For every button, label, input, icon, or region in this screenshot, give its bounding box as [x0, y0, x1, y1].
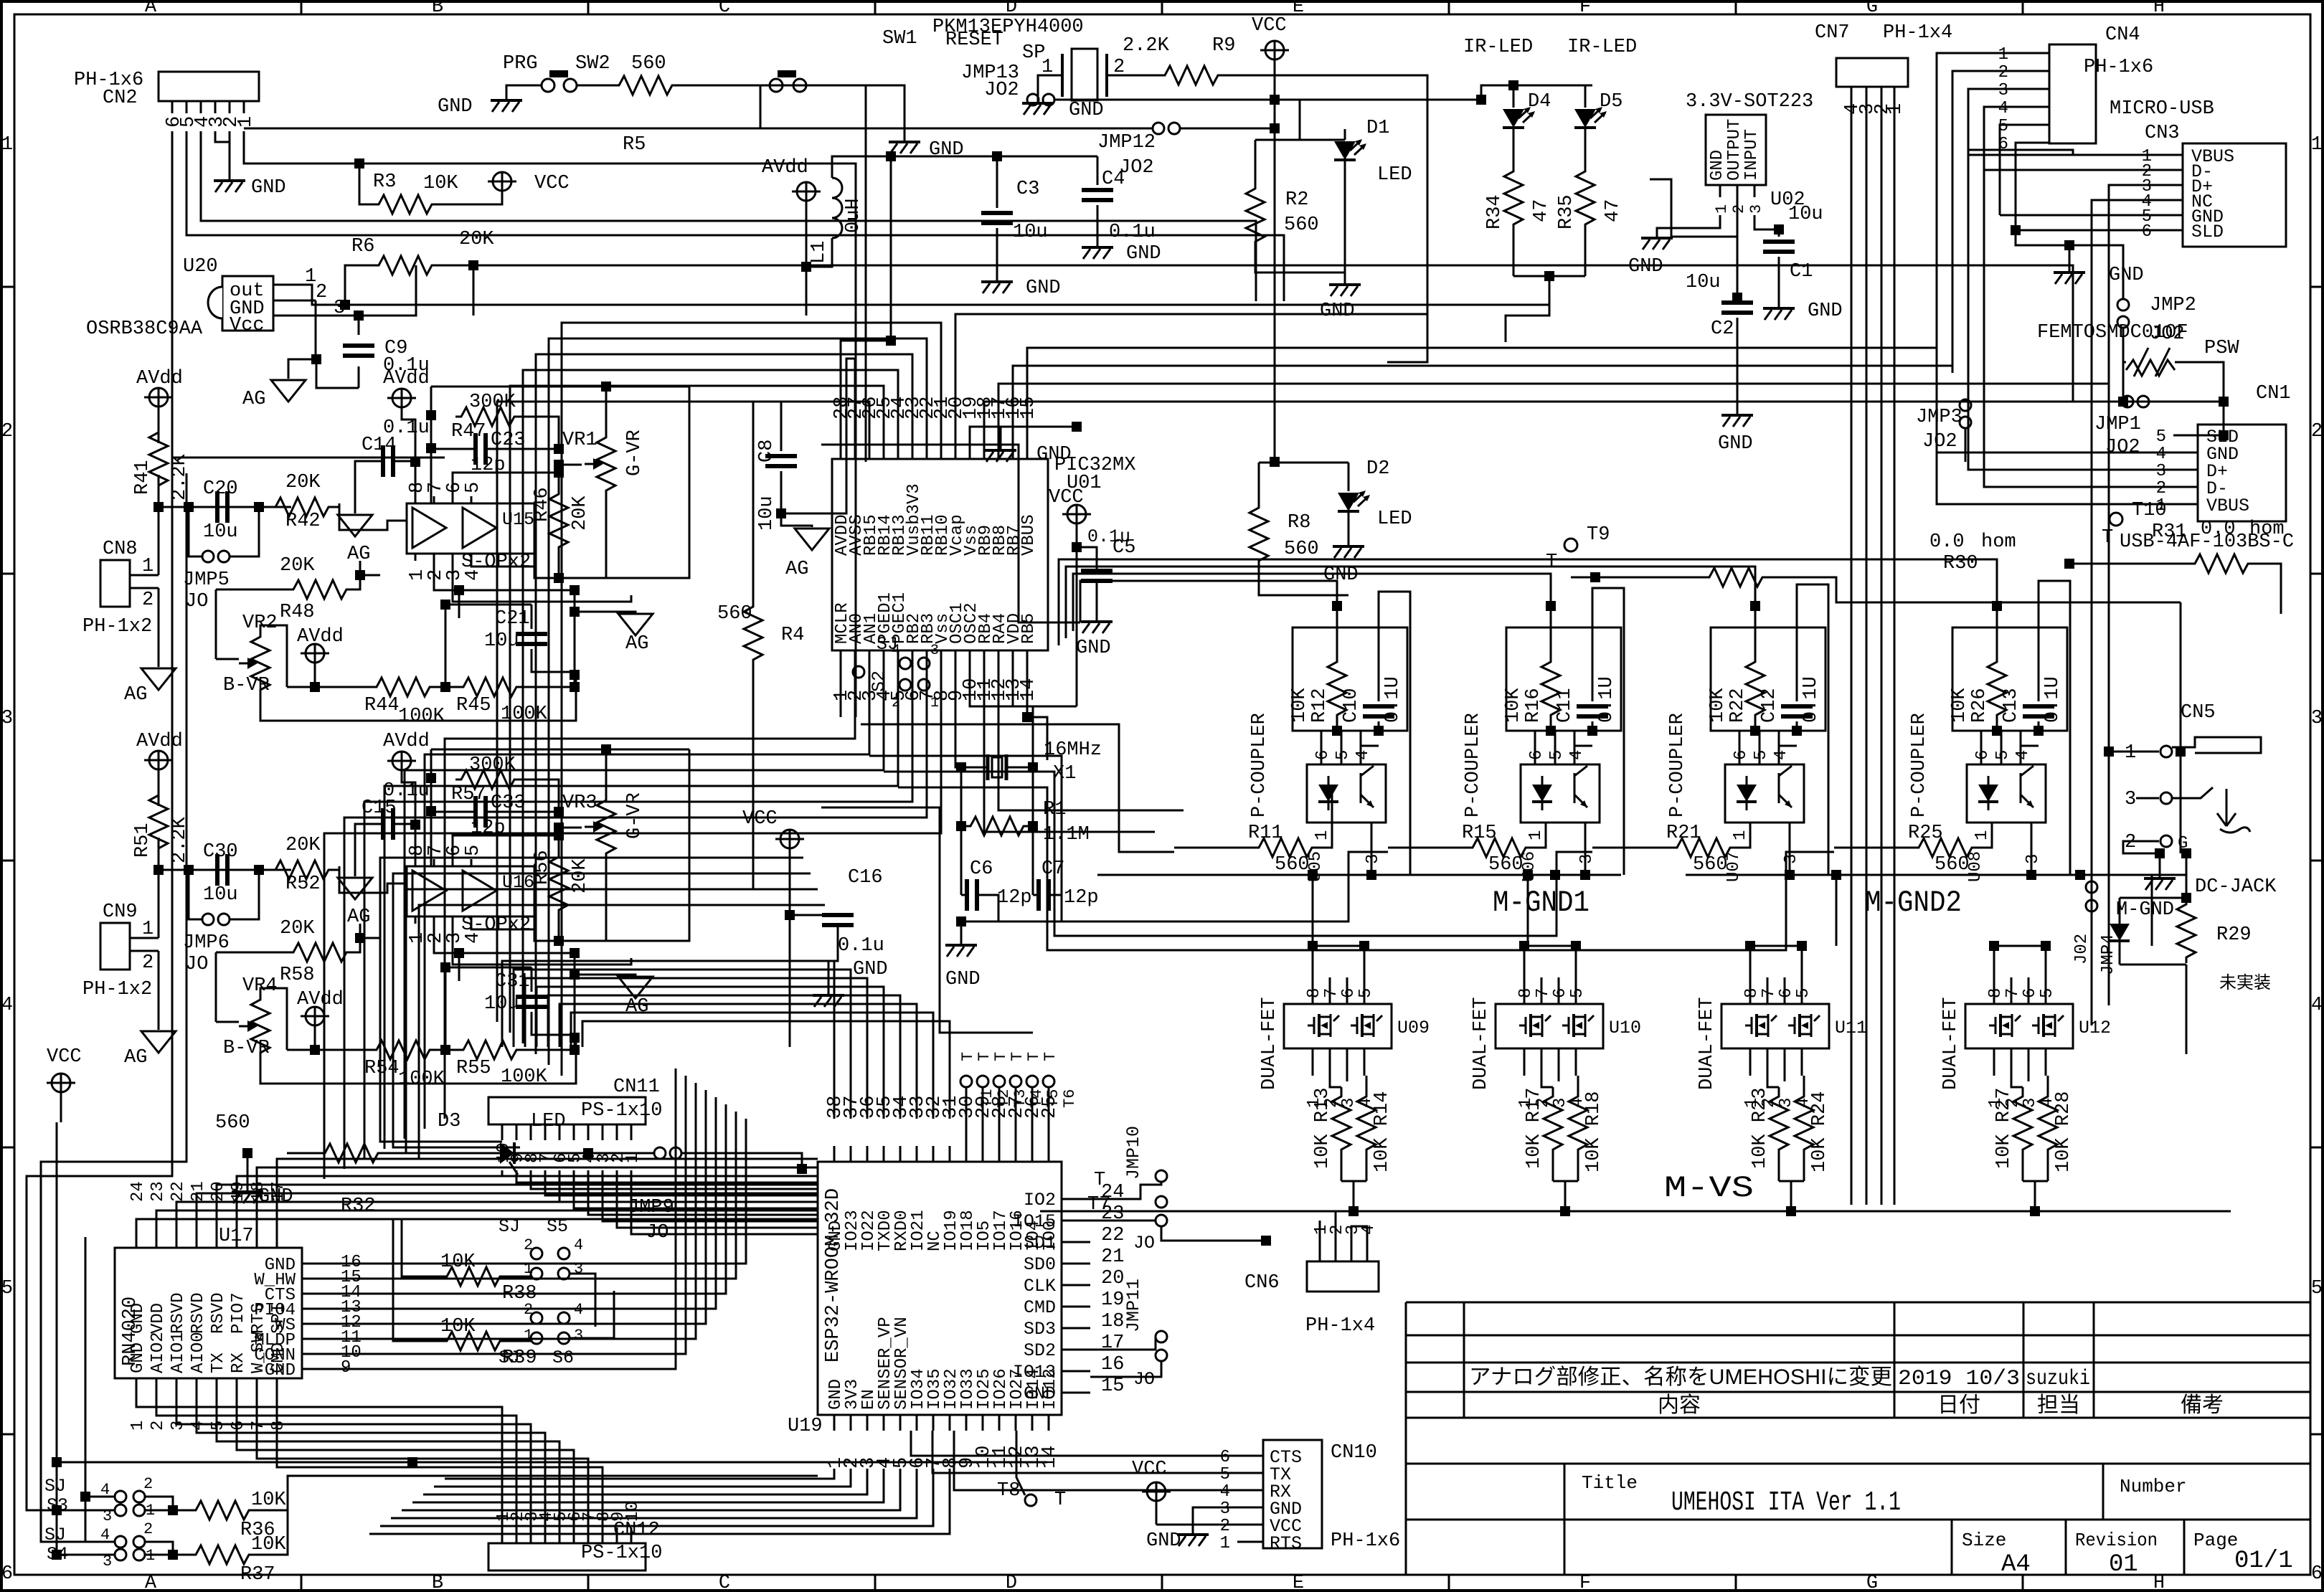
svg-text:560: 560 — [631, 53, 666, 75]
svg-text:2: 2 — [316, 282, 327, 303]
pin 14 U19 — [1048, 1415, 1050, 1431]
svg-text:20K: 20K — [280, 918, 315, 939]
svg-text:3: 3 — [1220, 1499, 1230, 1519]
svg-text:R41: R41 — [132, 460, 153, 495]
svg-text:10K R14: 10K R14 — [1371, 1091, 1393, 1172]
svg-text:3: 3 — [2125, 789, 2136, 810]
pin 5 CN3 GND — [2159, 214, 2183, 217]
svg-text:T: T — [1025, 1052, 1043, 1061]
svg-text:15: 15 — [1018, 397, 1039, 420]
svg-text:C8: C8 — [756, 440, 778, 463]
svg-text:R34: R34 — [1484, 194, 1506, 229]
svg-text:2: 2 — [142, 952, 153, 974]
svg-text:DC-JACK: DC-JACK — [2195, 876, 2277, 898]
pin 12 U01 — [998, 650, 1000, 663]
pin 12 U19 — [1015, 1415, 1017, 1431]
wire pin4 to cap — [2021, 745, 2039, 747]
svg-text:GND: GND — [1808, 300, 1843, 322]
svg-text:A4: A4 — [2001, 1551, 2031, 1578]
svg-text:U10: U10 — [1609, 1018, 1641, 1038]
svg-text:RTS: RTS — [1270, 1533, 1302, 1554]
jumper JMP4 J02 — [2091, 881, 2093, 1025]
pin 14 U01 — [1026, 650, 1029, 663]
svg-text:INPUT: INPUT — [1742, 129, 1762, 181]
svg-text:R16: R16 — [1523, 688, 1544, 723]
svg-text:12p: 12p — [1064, 887, 1099, 909]
svg-text:20K: 20K — [459, 229, 494, 250]
test point T9 — [1564, 539, 1577, 551]
wire M-GND2 rail — [1686, 874, 2186, 876]
ground X1 — [960, 921, 963, 944]
svg-text:5: 5 — [1220, 1465, 1230, 1484]
ground CN3 — [2069, 245, 2071, 271]
svg-text:4: 4 — [463, 932, 484, 944]
power AVdd R51 — [149, 751, 168, 769]
svg-text:PH-1x2: PH-1x2 — [82, 979, 152, 1000]
svg-text:22: 22 — [169, 1181, 188, 1202]
svg-text:SD3: SD3 — [1024, 1319, 1056, 1340]
wire fet bottom stubs — [1541, 1076, 1553, 1087]
pin 4 U01 — [883, 650, 885, 663]
svg-text:A: A — [145, 1573, 157, 1592]
pin 18 U19 SD3 — [1062, 1327, 1090, 1330]
svg-text:R3: R3 — [373, 171, 396, 193]
pin 6 CN10 CTS — [1237, 1455, 1263, 1457]
svg-text:C5: C5 — [1113, 537, 1135, 559]
svg-text:6: 6 — [1220, 1448, 1230, 1467]
pin 1 U19 — [833, 1415, 836, 1431]
svg-text:VCC: VCC — [534, 173, 570, 194]
wire D1 R2 top — [1255, 139, 1345, 141]
pin 4 CN3 NC — [2159, 199, 2183, 202]
wire fet top rail — [1524, 946, 1576, 977]
svg-text:10K R18: 10K R18 — [1583, 1091, 1605, 1172]
svg-text:2: 2 — [1998, 63, 2008, 82]
wire fet top rail — [1750, 946, 1802, 977]
svg-text:5: 5 — [1, 1278, 13, 1299]
svg-text:R9: R9 — [1212, 35, 1235, 57]
svg-text:1: 1 — [2311, 134, 2323, 156]
svg-text:4: 4 — [1, 995, 13, 1016]
svg-text:CN11: CN11 — [613, 1076, 660, 1098]
svg-text:B: B — [432, 0, 443, 18]
wire fet bottom stubs — [1767, 1076, 1779, 1087]
svg-text:4: 4 — [1354, 750, 1373, 760]
pin 2 U01 — [854, 650, 856, 663]
svg-text:T7: T7 — [1087, 1194, 1110, 1216]
svg-text:GND: GND — [128, 1342, 148, 1373]
pin 30 U19 — [965, 1146, 968, 1162]
svg-text:JO: JO — [646, 1222, 669, 1243]
svg-text:20K: 20K — [570, 496, 591, 531]
pin 4 U19 — [883, 1415, 885, 1431]
svg-text:6: 6 — [1732, 750, 1751, 760]
svg-text:DUAL-FET: DUAL-FET — [1259, 997, 1280, 1090]
pin 7 U01 — [926, 650, 928, 663]
wire CN4 pin 5 — [2023, 124, 2049, 126]
svg-text:10K: 10K — [1289, 688, 1310, 723]
wire CN2 pin3 pin2 to GND — [215, 131, 230, 179]
svg-text:RSVD: RSVD — [169, 1292, 188, 1334]
svg-text:D: D — [1006, 0, 1017, 18]
svg-text:D5: D5 — [1600, 91, 1622, 113]
svg-text:D2: D2 — [1366, 458, 1389, 480]
svg-text:T: T — [2102, 527, 2113, 549]
wire R6 right to bus — [473, 265, 2073, 402]
svg-text:G-VR: G-VR — [624, 792, 646, 839]
svg-text:L1: L1 — [808, 241, 830, 264]
power AVdd c14 — [392, 752, 411, 770]
pin 4 U17 — [196, 1378, 198, 1398]
svg-text:C21: C21 — [495, 608, 530, 630]
svg-text:U09: U09 — [1397, 1018, 1430, 1038]
svg-text:M-VS: M-VS — [1664, 1171, 1754, 1205]
svg-text:5: 5 — [1568, 988, 1587, 998]
pin 5 U17 — [216, 1378, 218, 1398]
connector CN10 PH-1x6 — [1263, 1440, 1322, 1548]
svg-text:PKM13EPYH4000: PKM13EPYH4000 — [932, 16, 1084, 38]
pin 17 U19 SD2 — [1062, 1349, 1090, 1351]
pin 16 U17 GND — [302, 1263, 334, 1265]
pin 9 U17 GND — [302, 1368, 334, 1370]
wires coupler top — [1754, 606, 1757, 627]
svg-text:1: 1 — [1313, 830, 1332, 840]
svg-text:CN3: CN3 — [2145, 123, 2180, 144]
svg-text:C11: C11 — [1554, 688, 1576, 723]
pin 8 U01 — [940, 650, 943, 663]
potentiometer VR3 G-VR — [597, 795, 615, 859]
pin 3 CN11 — [602, 1124, 604, 1140]
svg-text:16: 16 — [1101, 1354, 1124, 1375]
svg-text:3.3V-SOT223: 3.3V-SOT223 — [1686, 91, 1813, 113]
svg-text:12p: 12p — [997, 887, 1032, 909]
pin 17 U01 — [998, 446, 1000, 459]
pin 8 CN11 — [530, 1124, 532, 1140]
svg-text:R26: R26 — [1969, 688, 1990, 723]
rail — [153, 865, 164, 875]
svg-text:AG: AG — [124, 1047, 147, 1069]
svg-text:T9: T9 — [1587, 524, 1610, 546]
svg-text:U12: U12 — [2079, 1018, 2111, 1038]
pin 6 CN12 — [573, 1527, 575, 1543]
pin 38 U19 — [833, 1146, 836, 1162]
svg-text:D4: D4 — [1528, 91, 1551, 113]
potentiometer VR4 B-VR — [215, 952, 217, 1022]
svg-text:47: 47 — [1531, 199, 1552, 222]
svg-text:AVdd: AVdd — [762, 157, 808, 179]
IC U17 RN4020 — [115, 1248, 302, 1378]
svg-text:S6: S6 — [552, 1347, 574, 1368]
svg-text:PRG: PRG — [503, 53, 538, 75]
svg-text:4: 4 — [574, 1236, 583, 1254]
ground — [214, 179, 245, 182]
svg-text:AG: AG — [242, 389, 265, 410]
svg-text:J02: J02 — [2072, 934, 2092, 965]
svg-text:CMD: CMD — [1024, 1297, 1056, 1318]
svg-text:C30: C30 — [203, 841, 238, 863]
inductor L1 0uH — [832, 178, 842, 238]
pin 23 U01 — [912, 446, 914, 459]
jumper JMP3 J02 — [1960, 399, 1971, 411]
wire CN2 pin5 — [186, 131, 1284, 301]
rail right vertical — [574, 953, 576, 1050]
svg-text:GND: GND — [1146, 1530, 1181, 1552]
wire pin21 — [955, 314, 1427, 446]
svg-text:T3: T3 — [1011, 1089, 1029, 1108]
svg-text:5: 5 — [1993, 750, 2013, 760]
svg-text:R51: R51 — [132, 823, 153, 858]
test point T5 — [1026, 1076, 1038, 1087]
svg-text:C20: C20 — [203, 478, 238, 500]
resistor R44 100K — [260, 675, 576, 721]
pin 20 U01 — [955, 446, 957, 459]
svg-text:G: G — [1866, 1573, 1878, 1592]
svg-text:内容: 内容 — [1658, 1393, 1701, 1417]
svg-text:P-COUPLER: P-COUPLER — [1463, 713, 1484, 818]
svg-text:GND: GND — [1708, 150, 1727, 181]
wire cn pin2 to AG — [158, 588, 160, 667]
svg-text:T: T — [1094, 1170, 1105, 1191]
svg-text:22: 22 — [1101, 1225, 1124, 1246]
svg-text:10K: 10K — [1707, 688, 1729, 723]
svg-text:SJ: SJ — [44, 1476, 66, 1497]
pin 7 CN11 — [544, 1124, 547, 1140]
svg-text:10K R23: 10K R23 — [1749, 1088, 1771, 1169]
svg-text:4: 4 — [189, 1421, 208, 1431]
svg-text:日付: 日付 — [1937, 1393, 1980, 1417]
svg-text:7: 7 — [2003, 988, 2023, 998]
wire fet drive lines — [1331, 792, 1333, 823]
pin 32 U19 — [932, 1146, 935, 1162]
svg-text:A: A — [145, 0, 157, 18]
svg-text:未実装: 未実装 — [2219, 973, 2271, 992]
svg-text:S2: S2 — [869, 671, 889, 692]
svg-text:T: T — [1546, 551, 1557, 573]
test point T3 — [993, 1076, 1005, 1087]
wire fet bottom rail — [1553, 1180, 1578, 1183]
pin 27 U19 — [1015, 1146, 1017, 1162]
resistor R3 10K — [354, 158, 364, 169]
svg-text:JMP3: JMP3 — [1916, 407, 1962, 428]
svg-text:T4: T4 — [1028, 1089, 1046, 1108]
svg-text:R44: R44 — [364, 695, 400, 716]
resistor R29 — [2177, 899, 2196, 963]
svg-text:VCC: VCC — [1252, 15, 1287, 37]
svg-text:4: 4 — [1772, 750, 1791, 760]
svg-text:Page: Page — [2193, 1530, 2238, 1551]
svg-text:5: 5 — [209, 1421, 228, 1431]
svg-text:suzuki: suzuki — [2026, 1367, 2090, 1391]
svg-text:RB5: RB5 — [1019, 613, 1039, 644]
wire fet bottom stubs — [2011, 1076, 2023, 1087]
pin 7 U17 — [256, 1378, 258, 1398]
svg-text:19: 19 — [1101, 1289, 1124, 1311]
resistor R5 560 — [576, 85, 613, 87]
pin 5 CN10 TX — [1237, 1472, 1263, 1474]
svg-text:LED: LED — [1377, 508, 1412, 530]
pin 19 U19 CMD — [1062, 1306, 1090, 1308]
svg-text:MICRO-USB: MICRO-USB — [2110, 98, 2214, 120]
svg-text:1: 1 — [930, 695, 939, 711]
wire block output right — [606, 749, 689, 941]
svg-text:ESP32-WROOM-32D: ESP32-WROOM-32D — [823, 1188, 844, 1363]
svg-text:1: 1 — [1713, 204, 1731, 214]
wire cn pin1 up — [158, 870, 160, 938]
wire CN7 pin 1 — [1894, 87, 1896, 1205]
svg-text:2: 2 — [2125, 832, 2136, 853]
svg-text:4: 4 — [1998, 99, 2008, 118]
svg-text:R6: R6 — [351, 236, 374, 257]
pin 31 U19 — [949, 1146, 951, 1162]
svg-text:PS-1x10: PS-1x10 — [581, 1543, 662, 1564]
svg-text:1: 1 — [235, 116, 257, 128]
svg-text:GND: GND — [945, 969, 981, 990]
connector CN2 — [159, 72, 259, 101]
wire pin19 Vcap — [970, 427, 1077, 446]
svg-text:AVdd: AVdd — [297, 626, 344, 648]
svg-text:AG: AG — [124, 684, 147, 706]
pin 1 U17 — [136, 1378, 138, 1398]
svg-text:R31: R31 — [2152, 521, 2187, 543]
wire CN4 pin 4 — [2023, 106, 2049, 108]
wire CN7 pin 3 — [1866, 87, 1868, 1205]
svg-text:GND: GND — [1026, 278, 1061, 299]
pin 24 U17 — [136, 1228, 138, 1248]
svg-text:JO: JO — [1133, 1233, 1155, 1254]
ground GND center — [985, 449, 1016, 452]
svg-text:GND: GND — [1069, 100, 1104, 121]
svg-text:CN8: CN8 — [103, 539, 138, 560]
wire pin4 to cap — [1779, 745, 1797, 747]
wire CN2 pin1 MCLR net — [244, 131, 856, 717]
wire R5 to U01 column — [678, 85, 866, 462]
svg-text:2: 2 — [143, 1520, 153, 1538]
svg-text:JMP12: JMP12 — [1097, 132, 1156, 153]
svg-text:IO15: IO15 — [1013, 1211, 1056, 1232]
power AVdd R41 — [149, 388, 168, 407]
pin 15 U01 — [1026, 446, 1029, 459]
svg-text:20K: 20K — [280, 555, 315, 577]
wire coupler pin3 to rails — [1371, 884, 1373, 886]
wire fet bottom rail — [1779, 1180, 1804, 1183]
pin 26 U19 — [1031, 1146, 1034, 1162]
svg-text:3: 3 — [1782, 854, 1801, 864]
resistor R45 100K — [458, 678, 522, 696]
wire bus U01 top pins — [841, 341, 891, 446]
wire SW1 left side — [760, 85, 770, 128]
svg-text:560: 560 — [1284, 214, 1319, 236]
svg-text:3: 3 — [2023, 854, 2043, 864]
power VCC bottom left — [52, 1074, 70, 1092]
svg-text:6: 6 — [1777, 988, 1796, 998]
wire U02 out — [1650, 179, 1737, 237]
svg-text:R35: R35 — [1556, 194, 1577, 229]
svg-text:CLK: CLK — [1024, 1276, 1056, 1297]
pin 22 U17 — [176, 1228, 178, 1248]
svg-text:JMP5: JMP5 — [183, 569, 230, 591]
pins 6 5 4 — [1980, 731, 1983, 764]
svg-text:F: F — [1579, 1573, 1591, 1592]
pin 24 U19 IO2 — [1062, 1198, 1090, 1200]
wire fet bottom rail — [2023, 1180, 2048, 1183]
wire SW1 to GND — [806, 85, 904, 141]
pin 5 CN1 SLD — [2173, 435, 2198, 437]
connector CN8 PH-1x2 — [100, 560, 130, 607]
wire pin4 to cap — [1361, 745, 1379, 747]
svg-text:10K R13: 10K R13 — [1312, 1088, 1333, 1169]
svg-text:T1: T1 — [978, 1089, 996, 1108]
svg-text:R58: R58 — [280, 965, 315, 986]
svg-text:AG: AG — [347, 906, 370, 928]
resistor R6 20K — [345, 265, 373, 305]
test point T2 — [977, 1076, 988, 1087]
svg-text:CN4: CN4 — [2105, 24, 2140, 46]
svg-text:VR1: VR1 — [562, 430, 597, 451]
svg-text:5: 5 — [1356, 988, 1376, 998]
wire 12p line — [453, 473, 559, 496]
svg-text:6: 6 — [1339, 988, 1359, 998]
wires coupler top — [1550, 606, 1552, 627]
wire CN5 pin2 to M-GND — [2123, 841, 2160, 853]
pin 1 CN11 — [630, 1124, 633, 1140]
svg-text:10u: 10u — [1788, 204, 1823, 225]
svg-text:R37: R37 — [240, 1564, 275, 1586]
svg-text:3: 3 — [2311, 708, 2323, 729]
pin 16 U01 — [1012, 446, 1014, 459]
svg-text:JO: JO — [185, 591, 208, 612]
svg-text:47: 47 — [1602, 199, 1624, 222]
pin 10 U17 CONN — [302, 1353, 334, 1355]
svg-text:R30: R30 — [1943, 553, 1978, 574]
svg-text:2: 2 — [2311, 421, 2323, 442]
svg-text:21: 21 — [189, 1181, 208, 1202]
resistor R41 2.2K — [149, 427, 168, 491]
wire to IR LED rail — [1275, 85, 1592, 100]
svg-text:D3: D3 — [438, 1111, 460, 1132]
wire OSC pins — [955, 663, 961, 767]
wire CN7 pin 2 — [1881, 87, 1883, 1205]
svg-text:7: 7 — [1759, 988, 1779, 998]
svg-text:SW1: SW1 — [882, 28, 917, 49]
wire vertical from r45 — [445, 605, 447, 687]
svg-text:hom: hom — [1981, 531, 2016, 553]
pin 21 U19 SD0 — [1062, 1263, 1090, 1265]
pin 16 U19 IO13 — [1062, 1370, 1090, 1373]
svg-text:1: 1 — [1998, 45, 2008, 65]
svg-text:3: 3 — [1577, 854, 1597, 864]
svg-text:Vcc: Vcc — [230, 315, 265, 336]
svg-text:1: 1 — [1731, 830, 1750, 840]
wire CN5 pin1 — [2109, 751, 2136, 753]
wire CN7 pin 4 — [1851, 87, 1853, 1205]
pin 2 CN1 D- — [2173, 486, 2198, 488]
svg-text:Size: Size — [1962, 1530, 2006, 1551]
svg-text:AG: AG — [625, 633, 648, 655]
svg-text:2: 2 — [143, 1475, 153, 1493]
wire CN4 pin 6 — [2023, 142, 2049, 144]
svg-text:Title: Title — [1582, 1472, 1638, 1494]
svg-text:B-VR: B-VR — [223, 675, 270, 696]
ground — [491, 99, 522, 102]
capacitor C9 0.1u — [354, 311, 364, 321]
svg-text:15: 15 — [1101, 1375, 1124, 1397]
svg-text:TX: TX — [209, 1352, 228, 1373]
svg-text:GND: GND — [1320, 300, 1355, 322]
svg-text:T: T — [992, 1052, 1010, 1061]
svg-text:1: 1 — [142, 919, 153, 940]
wire M-VS rail — [1040, 1210, 2231, 1213]
svg-text:2.2K: 2.2K — [1123, 35, 1170, 57]
